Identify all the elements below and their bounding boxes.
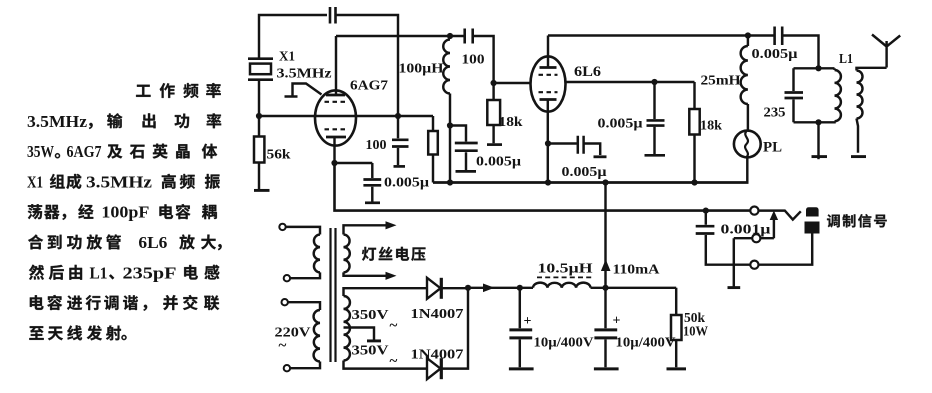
6L6 grid dashes — [539, 74, 558, 76]
svg-text:0.001µ: 0.001µ — [721, 222, 771, 237]
ground stub at 6AG7 top — [285, 84, 322, 97]
wire B+ feed (110mA) — [604, 183, 606, 288]
inductor 25mH — [741, 46, 748, 104]
junction tank bottom — [815, 119, 821, 125]
capacitor 100 (grid-leak) — [397, 116, 399, 165]
svg-text:110mA: 110mA — [613, 263, 661, 278]
capacitor 0.005u (output coupling) — [748, 36, 819, 69]
capacitor feedback (top) — [330, 7, 336, 24]
svg-text:+: + — [524, 314, 532, 329]
wire 6L6 grid — [494, 82, 531, 84]
svg-text:35W: 35W — [27, 142, 54, 161]
svg-text:L1: L1 — [90, 263, 108, 282]
capacitor 100 coupling — [450, 36, 494, 83]
lamp PL — [734, 131, 761, 158]
junction 6AG7 cathode — [331, 160, 337, 166]
svg-text:0.005µ: 0.005µ — [476, 154, 521, 169]
wire 6AG7 plate to coupling node — [336, 35, 450, 37]
antenna — [872, 35, 900, 68]
svg-text:100pF: 100pF — [101, 203, 149, 222]
svg-text:6L6: 6L6 — [138, 233, 167, 252]
ground (50k) — [667, 367, 687, 370]
junction tank top — [815, 65, 821, 71]
svg-text:X1: X1 — [27, 172, 43, 191]
wire tank top — [794, 67, 835, 69]
junction plate line / 25mH — [745, 32, 751, 38]
transformer filament winding — [344, 235, 350, 273]
wire jack bottom to plug — [759, 234, 813, 265]
6AG7 screen grid dashes — [325, 101, 347, 103]
wire feedback top — [259, 15, 327, 58]
inductor L1 antenna coil — [857, 71, 863, 119]
inductor 100uH — [443, 40, 450, 94]
resistor 56k — [258, 116, 260, 191]
svg-text:10µ/400V: 10µ/400V — [534, 335, 594, 350]
tube 6L6 — [531, 56, 566, 111]
resistor 50k 10W — [675, 288, 677, 367]
tube 6AG7 — [315, 90, 356, 145]
svg-text:235pF: 235pF — [123, 263, 177, 282]
ground (cap 2) — [594, 367, 619, 370]
svg-text:6AG7: 6AG7 — [67, 142, 102, 161]
B+ bus wire — [433, 181, 749, 184]
capacitor 0.005u (osc plate bypass) — [450, 126, 466, 171]
junction 6L6 cathode bypass — [545, 140, 551, 146]
transformer HV winding — [344, 296, 350, 361]
junction plate node — [447, 33, 453, 39]
dashed line under 10.5uH label — [537, 276, 594, 278]
transformer primary 220V winding — [288, 302, 320, 368]
ground (jack) — [728, 286, 741, 289]
resistor 18k (grid) — [492, 83, 494, 143]
current arrow 110mA — [601, 259, 611, 271]
jack terminal top — [750, 207, 758, 215]
transformer primary upper winding — [286, 227, 320, 278]
B+ rail — [468, 287, 676, 289]
ground (tank) — [812, 155, 828, 158]
junction filter cap 2 — [602, 285, 608, 291]
wire crystal to grid node — [258, 80, 260, 116]
capacitor 10u/400V #2 — [604, 288, 606, 367]
svg-text:3.5MHz: 3.5MHz — [27, 112, 87, 131]
arrow (jack switch) — [770, 211, 778, 221]
svg-text:~: ~ — [279, 338, 287, 354]
svg-text:100: 100 — [462, 52, 485, 67]
component value labels — [267, 46, 854, 370]
wire jack middle to arrow — [760, 219, 774, 239]
6AG7 cathode bar and lead — [326, 136, 346, 139]
resistor grid-leak (unlabeled) — [432, 116, 434, 183]
wire cathode branch — [335, 162, 373, 164]
capacitor 0.005u (6L6 cathode) — [548, 144, 600, 156]
crystal X1 — [248, 59, 273, 80]
ground (56k) — [254, 189, 270, 192]
junction rectifier output — [465, 285, 471, 291]
wire 100uH bottom — [449, 94, 451, 183]
svg-text:0.005µ: 0.005µ — [598, 116, 643, 131]
6AG7 grid dashes — [325, 128, 347, 130]
HV center tap to ground — [344, 328, 375, 340]
svg-text:0.005µ: 0.005µ — [752, 46, 798, 61]
capacitor 0.005u (screen bypass) — [653, 82, 655, 154]
wire jack top to switch — [759, 211, 801, 220]
wire tank to ground — [817, 122, 819, 159]
junction filter cap 1 — [517, 285, 523, 291]
svg-text:1N4007: 1N4007 — [411, 348, 464, 363]
wire 6L6 screen right — [566, 81, 695, 83]
svg-text:0.005µ: 0.005µ — [384, 175, 429, 190]
ground (L1) — [851, 155, 866, 158]
wire grid line — [259, 115, 433, 117]
jack terminal middle — [752, 234, 760, 242]
svg-text:350V: 350V — [352, 344, 389, 359]
wire cathode bus — [335, 163, 751, 211]
wire jack middle to ground — [734, 238, 752, 288]
svg-text:235: 235 — [764, 106, 786, 121]
svg-text:3.5MHz: 3.5MHz — [86, 172, 152, 191]
junction 0.001u on cathode bus — [703, 208, 709, 214]
label modulation signal (CJK) — [362, 214, 887, 261]
choke 10.5uH — [533, 283, 591, 288]
6L6 plate bar and lead — [540, 66, 557, 69]
6AG7 plate bar and lead — [326, 94, 345, 97]
capacitor 0.005u (cathode) — [371, 163, 373, 202]
diode 1N4007 upper — [427, 278, 441, 299]
svg-text:56k: 56k — [267, 147, 292, 162]
phone plug (modulation input) — [806, 207, 819, 216]
label filament voltage (CJK) — [362, 247, 376, 261]
circuit description text — [27, 83, 222, 340]
svg-text:350V: 350V — [352, 308, 389, 323]
junctions on B+ bus — [447, 179, 453, 185]
svg-text:L1: L1 — [839, 51, 853, 66]
svg-text:6L6: 6L6 — [574, 64, 601, 80]
diode 1N4007 lower — [427, 358, 441, 379]
svg-text:10.5µH: 10.5µH — [538, 262, 593, 277]
jack terminal bottom — [750, 261, 758, 269]
svg-text:100: 100 — [366, 137, 387, 152]
capacitor 0.001u — [706, 211, 750, 265]
svg-text:25mH: 25mH — [701, 73, 742, 88]
6L6 cathode bar and lead — [540, 98, 557, 101]
capacitor 235 — [792, 68, 794, 122]
svg-text:1N4007: 1N4007 — [411, 307, 464, 322]
ground (cap 1) — [509, 367, 534, 370]
svg-text:10µ/400V: 10µ/400V — [616, 335, 676, 350]
svg-text:PL: PL — [763, 140, 782, 156]
transformer terminal circles — [279, 224, 285, 230]
ground (center tap) — [367, 339, 381, 342]
junction grid 6L6 — [491, 80, 497, 86]
resistor 18k (screen) — [693, 82, 695, 183]
junction 100uH / bypass cap — [447, 122, 453, 128]
junction screen bypass — [651, 79, 657, 85]
arrow B+ — [483, 284, 495, 293]
svg-text:3.5MHz: 3.5MHz — [277, 67, 332, 82]
svg-text:~: ~ — [390, 318, 398, 334]
node grid (junction) — [256, 113, 262, 119]
wire 6L6 plate top — [548, 34, 748, 36]
transformer core — [331, 228, 336, 362]
filament arrows — [386, 221, 397, 229]
svg-text:~: ~ — [390, 354, 398, 370]
svg-text:18k: 18k — [700, 118, 723, 133]
svg-text:+: + — [613, 314, 621, 329]
svg-text:100µH: 100µH — [399, 61, 445, 76]
svg-text:6AG7: 6AG7 — [350, 79, 388, 94]
junction feedback/grid — [395, 113, 401, 119]
svg-text:0.005µ: 0.005µ — [562, 164, 607, 179]
svg-text:X1: X1 — [279, 50, 295, 65]
capacitor 10u/400V #1 — [519, 288, 521, 367]
svg-text:18k: 18k — [499, 114, 524, 129]
inductor tank — [835, 70, 841, 121]
svg-text:10W: 10W — [683, 324, 708, 339]
